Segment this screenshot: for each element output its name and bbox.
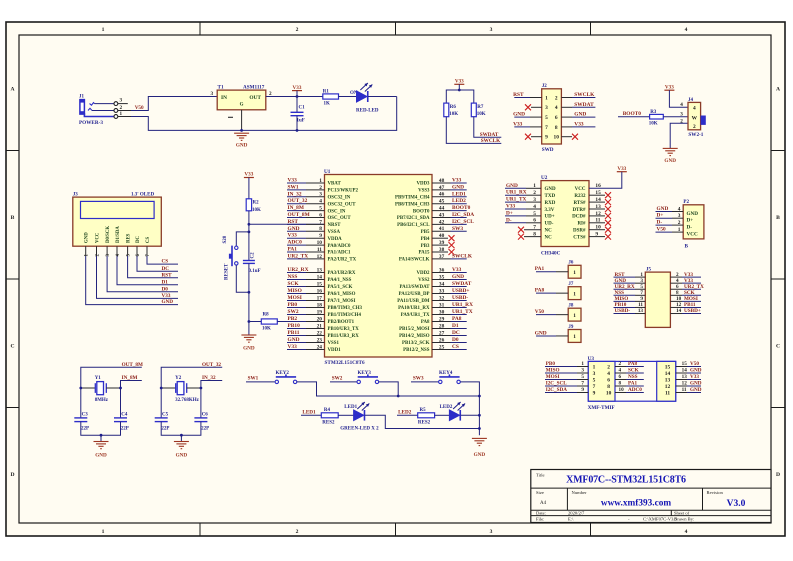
svg-text:PA10/UR1_RX: PA10/UR1_RX	[398, 306, 430, 311]
svg-text:B: B	[11, 215, 15, 221]
resistor R1 1K	[323, 89, 339, 106]
svg-text:1: 1	[102, 529, 105, 535]
svg-text:PA8: PA8	[628, 361, 638, 367]
node SWCLK wire	[446, 117, 501, 144]
svg-text:VCC: VCC	[687, 231, 698, 237]
resistor R2 10K	[246, 199, 261, 213]
svg-text:PA4/1_NSS: PA4/1_NSS	[328, 278, 352, 283]
resistor R3 10K	[649, 110, 664, 127]
U1 pin 20 PB2/BOOT1 node PB2	[287, 316, 355, 325]
svg-text:15: 15	[682, 361, 688, 367]
svg-text:VDD3: VDD3	[416, 182, 430, 187]
svg-text:DSR#: DSR#	[573, 229, 586, 234]
U1 pin 10 PA0/ADC0 node ADC0	[287, 240, 351, 249]
svg-text:SWDAT: SWDAT	[574, 102, 594, 108]
svg-text:2: 2	[607, 364, 610, 370]
resistor R6 10K	[444, 103, 459, 117]
svg-text:BOOT0: BOOT0	[413, 209, 430, 214]
svg-text:SW3: SW3	[452, 226, 463, 232]
svg-text:IN_32: IN_32	[288, 191, 302, 197]
U1 pin 38 PA15 no-connect	[418, 247, 454, 256]
svg-text:4: 4	[607, 371, 610, 377]
svg-text:PA6/1_MISO: PA6/1_MISO	[328, 292, 356, 297]
svg-text:4: 4	[685, 529, 688, 535]
U1 pin 11 PA1/ADC1 node PA1	[287, 247, 351, 256]
junction	[180, 434, 183, 437]
U1 pin 2 PC13/WKUP2 node SW1	[287, 184, 358, 193]
svg-text:8: 8	[555, 125, 558, 131]
wire SW3 to KEY4	[411, 381, 439, 383]
svg-text:SWCLK: SWCLK	[481, 138, 500, 144]
junction	[458, 89, 461, 92]
title block	[531, 470, 771, 523]
U1 pin 43 PB7/I2C1_SDA node I2C_SDA	[397, 212, 474, 221]
U1 pin 6 OSC_OUT node OUT_8M	[287, 212, 351, 221]
svg-text:PA12/USB_DP: PA12/USB_DP	[399, 292, 430, 297]
push button KEY4	[439, 371, 461, 384]
svg-text:2: 2	[296, 529, 299, 535]
wire	[100, 435, 102, 441]
svg-text:1: 1	[573, 334, 576, 340]
svg-text:SW1: SW1	[288, 184, 299, 190]
svg-text:C:\XMF07C-V3.S: C:\XMF07C-V3.S	[643, 516, 678, 521]
svg-text:PB8/TIM4_CH3: PB8/TIM4_CH3	[395, 202, 430, 207]
U1 pin 32 PA11/USB_DM node USBD-	[397, 295, 468, 304]
svg-text:I2C_SDA: I2C_SDA	[452, 212, 474, 218]
svg-text:4: 4	[685, 27, 688, 33]
svg-text:22P: 22P	[161, 427, 169, 432]
svg-text:CS: CS	[146, 237, 151, 243]
ground GND under T1	[234, 133, 249, 149]
U1 pin 12 PA2/UR2_TX node UR2_TX	[287, 253, 357, 262]
svg-text:VSS2: VSS2	[418, 278, 430, 283]
J5 pin 4 node V33	[670, 278, 701, 284]
svg-text:UR1_TX: UR1_TX	[506, 197, 526, 203]
U1 pin 34 PA13/SWDAT node SWDAT	[400, 281, 472, 290]
svg-text:CH340C: CH340C	[541, 251, 561, 257]
svg-text:R7: R7	[477, 105, 484, 110]
svg-text:UR1_TX: UR1_TX	[452, 309, 473, 315]
diode LED1	[344, 402, 369, 421]
svg-text:V33: V33	[293, 85, 302, 91]
U1 pin 45 PB8/TIM4_CH3 node LED2	[395, 198, 467, 207]
J2 pin7 node V33	[513, 121, 542, 127]
svg-text:ADC0: ADC0	[628, 387, 642, 393]
svg-text:6: 6	[619, 374, 622, 380]
svg-text:B: B	[685, 244, 689, 250]
resistor R8 10K	[249, 312, 325, 331]
J2 pin1 node RST	[513, 92, 542, 98]
svg-text:CS: CS	[452, 344, 459, 350]
svg-text:GND: GND	[95, 452, 107, 458]
svg-text:VDDA: VDDA	[328, 237, 343, 242]
svg-text:V33: V33	[513, 121, 523, 127]
svg-text:VSS1: VSS1	[328, 341, 340, 346]
ground GND below J4	[663, 148, 678, 164]
connector J3 1.3" OLED	[73, 192, 162, 256]
power V33 above R2	[244, 172, 254, 178]
U3 pin 5 node MOSI	[545, 374, 588, 380]
U2 pin1 node GND	[505, 183, 541, 189]
svg-text:PB11/UR3_RX: PB11/UR3_RX	[328, 334, 360, 339]
svg-text:2: 2	[296, 27, 299, 33]
svg-text:3: 3	[545, 105, 548, 111]
svg-text:UR2_RX: UR2_RX	[288, 267, 309, 273]
svg-text:V33: V33	[288, 178, 298, 184]
J5 pin 3 node GND	[614, 278, 646, 284]
svg-text:MOSI: MOSI	[546, 374, 560, 380]
U1 pin 23 VSS1 node GND	[287, 337, 339, 346]
U3 pin 14 node GND	[676, 368, 702, 374]
wire KEY2 to gnd bus	[297, 382, 398, 396]
wire R4 to LED1 diode	[338, 414, 353, 416]
svg-text:S20: S20	[223, 235, 228, 243]
U1 pin 17 PA7/1_MOSI node MOSI	[287, 295, 355, 304]
U1 pin 19 PB1/TIM3/CH4 node SW2	[287, 309, 361, 318]
junction	[100, 434, 103, 437]
wire to ground	[161, 422, 201, 436]
wires J3 pins to net labels	[86, 246, 178, 304]
svg-text:PA15: PA15	[418, 251, 430, 256]
junction	[248, 223, 251, 226]
svg-text:TXD: TXD	[545, 194, 556, 199]
svg-text:LED1: LED1	[344, 405, 357, 410]
svg-text:XMF-TMIF: XMF-TMIF	[588, 405, 615, 411]
svg-text:7: 7	[545, 125, 548, 131]
svg-text:D0: D0	[452, 337, 459, 343]
svg-text:PB3: PB3	[421, 244, 430, 249]
svg-text:13: 13	[682, 374, 688, 380]
svg-text:PA7/1_MOSI: PA7/1_MOSI	[328, 299, 356, 304]
U1 pin 26 PB13/2_SCK node D0	[402, 337, 467, 346]
U3 pin 11 node GND	[676, 387, 702, 393]
resistor R4 RES2	[321, 408, 338, 426]
svg-text:PA1/ADC1: PA1/ADC1	[328, 251, 352, 256]
U1 pin 30 PA9/UR1_TX node UR1_TX	[401, 309, 473, 318]
svg-text:G: G	[240, 103, 244, 108]
svg-text:GND: GND	[452, 274, 464, 280]
svg-text:POWER-3: POWER-3	[79, 120, 103, 126]
svg-text:5: 5	[593, 377, 596, 383]
wire V33 to J4 pin4	[669, 90, 688, 107]
wire LED1 to gnd rail	[365, 415, 480, 428]
svg-text:PB15/2_MOSI: PB15/2_MOSI	[399, 327, 430, 332]
J5 pin 2 node V33	[670, 272, 701, 278]
wire gnd bus	[398, 395, 479, 397]
svg-text:22P: 22P	[201, 427, 209, 432]
svg-text:GND: GND	[85, 232, 90, 243]
svg-text:Number: Number	[572, 490, 588, 495]
U1 pin 5 OSC_IN node IN_8M	[287, 205, 346, 214]
svg-text:OSC32_OUT: OSC32_OUT	[328, 202, 357, 207]
svg-text:3: 3	[490, 529, 493, 535]
wire V50 to regulator	[131, 97, 217, 111]
svg-text:D1/SDA: D1/SDA	[116, 226, 121, 243]
wire BOOT0 to R3	[618, 116, 650, 118]
svg-text:SCK: SCK	[628, 368, 639, 374]
U2 pin5 node D+	[505, 210, 541, 216]
svg-text:GND: GND	[162, 299, 174, 305]
svg-text:ADC0: ADC0	[288, 240, 303, 246]
svg-text:PA1: PA1	[288, 247, 298, 253]
U3 pin 8 node PA1	[615, 381, 644, 387]
wire R3 to J4 pin3	[663, 116, 688, 118]
svg-text:5: 5	[581, 374, 584, 380]
ground GND below reset	[241, 335, 256, 352]
svg-text:GND: GND	[535, 330, 547, 336]
svg-text:W: W	[692, 116, 698, 122]
svg-text:RXD: RXD	[545, 201, 556, 206]
P2 pin4 node GND	[656, 206, 684, 212]
svg-text:D1: D1	[452, 323, 459, 329]
crystal Y2 32.768KHz	[160, 376, 203, 403]
wire RST to U1 pin7	[249, 223, 325, 225]
svg-text:NSS: NSS	[628, 374, 638, 380]
svg-text:Size: Size	[536, 490, 544, 495]
svg-text:SWDAT: SWDAT	[480, 132, 499, 138]
svg-text:UR1_RX: UR1_RX	[506, 190, 527, 196]
svg-text:Revision: Revision	[707, 490, 724, 495]
J5 pin 7 node NSS	[614, 290, 646, 296]
svg-text:www.xmf393.com: www.xmf393.com	[601, 499, 671, 509]
svg-text:6: 6	[555, 115, 558, 121]
svg-text:PA14/SWCLK: PA14/SWCLK	[399, 258, 430, 263]
wire SW1 to KEY2	[246, 381, 275, 383]
svg-text:SWDAT: SWDAT	[452, 281, 472, 287]
J2 pin6 node GND	[561, 112, 595, 118]
switch J4 SW2-1	[680, 98, 706, 138]
wire LED2 to gnd rail	[461, 414, 480, 416]
connector J6 node PA1	[535, 261, 581, 278]
capacitor C2 0.1uF	[243, 232, 261, 292]
svg-text:VCC: VCC	[95, 232, 100, 243]
IC U2 CH340C	[533, 175, 601, 257]
J2 pin4 node SWDAT	[561, 102, 595, 108]
svg-text:GND: GND	[690, 368, 702, 374]
svg-text:2: 2	[693, 124, 696, 130]
svg-text:GND: GND	[687, 211, 699, 217]
svg-text:VDD1: VDD1	[328, 348, 342, 353]
U3 pin 9 node I2C_SDA	[545, 387, 588, 393]
svg-text:Drawn By:: Drawn By:	[674, 516, 694, 521]
U1 pin 42 PB6/I2C1_SCL node I2C_SCL	[397, 219, 474, 228]
junction	[296, 95, 299, 98]
J2 pin2 node SWCLK	[561, 92, 595, 98]
U1 pin 33 PA12/USB_DP node USBD+	[399, 288, 470, 297]
J2 pin8 node V33	[561, 121, 595, 127]
svg-text:Y1: Y1	[95, 376, 102, 381]
svg-text:PB2/BOOT1: PB2/BOOT1	[328, 320, 355, 325]
svg-text:V33: V33	[452, 267, 462, 273]
wire LED2 to R5	[397, 414, 418, 416]
svg-text:V50: V50	[135, 105, 144, 111]
svg-text:PB0/TIM3_CH3: PB0/TIM3_CH3	[328, 306, 363, 311]
svg-text:V33: V33	[244, 172, 253, 178]
svg-text:KEY2: KEY2	[276, 371, 290, 376]
capacitor C4 22P	[114, 413, 129, 432]
U1 pin 47 VSS3 node GND	[418, 184, 467, 193]
svg-text:A: A	[10, 87, 14, 93]
resistor R7 10K	[471, 103, 486, 117]
svg-text:GND: GND	[690, 381, 702, 387]
svg-text:7: 7	[593, 384, 596, 390]
U3 pin 7 node I2C_SCL	[545, 381, 588, 387]
svg-text:DCD#: DCD#	[572, 215, 586, 220]
J5 pin 9 node MISO	[614, 296, 646, 302]
svg-text:C4: C4	[121, 413, 128, 418]
svg-text:PA0/ADC0: PA0/ADC0	[328, 244, 352, 249]
svg-text:10K: 10K	[262, 327, 271, 332]
svg-text:9: 9	[581, 387, 584, 393]
header J2 SWD	[542, 84, 562, 153]
svg-text:V33: V33	[162, 293, 171, 299]
svg-text:SW2-1: SW2-1	[688, 132, 703, 138]
svg-text:RES2: RES2	[418, 421, 431, 426]
svg-text:OSC_OUT: OSC_OUT	[328, 216, 352, 221]
U1 pin 28 PB15/2_MOSI node D1	[399, 323, 467, 332]
svg-text:USBD+: USBD+	[452, 288, 469, 294]
push button KEY3	[357, 371, 379, 384]
U1 pin 27 PB14/2_MISO node DC	[399, 330, 467, 339]
U1 pin 15 PA5/1_SCK node SCK	[287, 281, 353, 290]
svg-text:PB1/TIM3/CH4: PB1/TIM3/CH4	[328, 313, 362, 318]
svg-text:5: 5	[545, 115, 548, 121]
P2 pin1 node V50	[656, 227, 684, 233]
svg-text:GND: GND	[288, 226, 300, 232]
svg-text:STM32L151C8T6: STM32L151C8T6	[325, 360, 365, 366]
junction	[397, 395, 400, 398]
wire J4 pin2 to GND	[670, 123, 688, 148]
svg-text:GND: GND	[545, 187, 557, 192]
J2 pin10 no-connect	[561, 134, 578, 140]
svg-text:9: 9	[545, 135, 548, 141]
P2 pin2 node D-	[656, 220, 684, 226]
svg-text:12: 12	[682, 381, 688, 387]
svg-text:3: 3	[490, 27, 493, 33]
svg-text:1: 1	[581, 361, 584, 367]
wire SW2 to KEY3	[330, 381, 357, 383]
svg-text:UD-: UD-	[545, 222, 554, 227]
svg-text:V33: V33	[288, 344, 298, 350]
svg-text:SW2: SW2	[288, 309, 299, 315]
svg-text:GND: GND	[474, 452, 486, 458]
svg-text:GND: GND	[243, 346, 255, 352]
svg-text:8: 8	[607, 384, 610, 390]
svg-text:V50: V50	[657, 227, 666, 233]
svg-text:V50: V50	[535, 309, 545, 315]
svg-text:2: 2	[555, 95, 558, 101]
svg-text:V33: V33	[506, 204, 515, 210]
svg-text:V33: V33	[288, 233, 298, 239]
IC U1 STM32L151C8T6	[324, 169, 432, 366]
svg-text:V33: V33	[690, 374, 699, 380]
U2 pin7 no-connect	[518, 227, 541, 233]
svg-text:9: 9	[593, 390, 596, 396]
svg-text:4: 4	[555, 105, 558, 111]
junction	[248, 231, 251, 234]
U3 pin 2 node PA8	[615, 361, 644, 367]
svg-text:RTS#: RTS#	[573, 201, 586, 206]
svg-text:4: 4	[619, 368, 622, 374]
svg-text:D: D	[776, 472, 780, 478]
junction	[240, 129, 243, 132]
svg-text:1uF: 1uF	[297, 119, 305, 124]
svg-text:V33: V33	[665, 84, 674, 90]
svg-text:10: 10	[606, 390, 612, 396]
svg-text:11: 11	[665, 390, 670, 396]
svg-text:B: B	[776, 215, 780, 221]
ground GND	[174, 442, 189, 459]
svg-text:R2: R2	[253, 200, 260, 205]
svg-text:USBD-: USBD-	[615, 308, 631, 314]
svg-text:MISO: MISO	[546, 368, 560, 374]
connector J1 POWER-3	[79, 95, 131, 126]
svg-text:SW2: SW2	[332, 376, 343, 382]
U1 pin 36 VDD2 node V33	[416, 267, 466, 276]
svg-text:XMF07C--STM32L151C8T6: XMF07C--STM32L151C8T6	[566, 475, 686, 486]
svg-text:RST: RST	[162, 272, 173, 278]
svg-text:V33: V33	[455, 79, 464, 85]
svg-text:13: 13	[665, 377, 671, 383]
junction	[296, 129, 299, 132]
svg-text:1: 1	[593, 364, 596, 370]
U3 pin 6 node NSS	[615, 374, 644, 380]
svg-text:J1: J1	[79, 95, 85, 100]
svg-text:PA8: PA8	[421, 320, 430, 325]
U1 pin 41 PB5 node SW3	[421, 226, 467, 235]
svg-text:PA8: PA8	[452, 316, 462, 322]
svg-text:10: 10	[619, 387, 625, 393]
svg-text:D-: D-	[506, 217, 512, 223]
svg-text:10: 10	[554, 135, 560, 141]
svg-text:I2C_SCL: I2C_SCL	[546, 381, 568, 387]
U2 pin3 node UR1_TX	[505, 197, 541, 203]
capacitor C3 22P	[74, 413, 89, 432]
svg-text:3: 3	[593, 371, 596, 377]
U1 pin 31 PA10/UR1_RX node UR1_RX	[398, 302, 473, 311]
svg-text:4: 4	[680, 102, 683, 108]
svg-text:D+: D+	[506, 210, 513, 216]
svg-text:0.1uF: 0.1uF	[249, 269, 261, 274]
svg-text:UR2_TX: UR2_TX	[288, 253, 309, 259]
svg-text:SW1: SW1	[248, 376, 259, 382]
svg-text:4: 4	[693, 106, 696, 112]
connector J8 node V50	[535, 304, 581, 322]
svg-text:14: 14	[682, 368, 688, 374]
U1 pin 16 PA6/1_MISO node MISO	[287, 288, 356, 297]
svg-text:OSC32_IN: OSC32_IN	[328, 196, 351, 201]
J5 pin 1 node RST	[614, 272, 646, 278]
svg-text:8MHz: 8MHz	[95, 398, 109, 403]
svg-text:GND: GND	[513, 112, 525, 118]
wire OUT_32	[161, 367, 222, 418]
svg-text:MISO: MISO	[288, 288, 302, 294]
svg-text:LED1: LED1	[452, 191, 466, 197]
svg-text:PB13/2_SCK: PB13/2_SCK	[402, 341, 430, 346]
svg-text:V33: V33	[452, 178, 462, 184]
svg-text:RED-LED: RED-LED	[356, 108, 379, 113]
connector P2 USB	[678, 200, 704, 249]
U3 pin 10 node ADC0	[615, 387, 644, 393]
svg-text:PB10: PB10	[288, 323, 301, 329]
U1 pin 7 NRST node RST	[287, 219, 341, 228]
svg-text:6: 6	[607, 377, 610, 383]
svg-text:RST: RST	[513, 92, 524, 98]
svg-text:V33: V33	[617, 166, 626, 172]
svg-text:UD+: UD+	[545, 215, 555, 220]
power V33 above R6/R7	[454, 79, 464, 85]
regulator T1 ASM1117	[211, 85, 273, 131]
